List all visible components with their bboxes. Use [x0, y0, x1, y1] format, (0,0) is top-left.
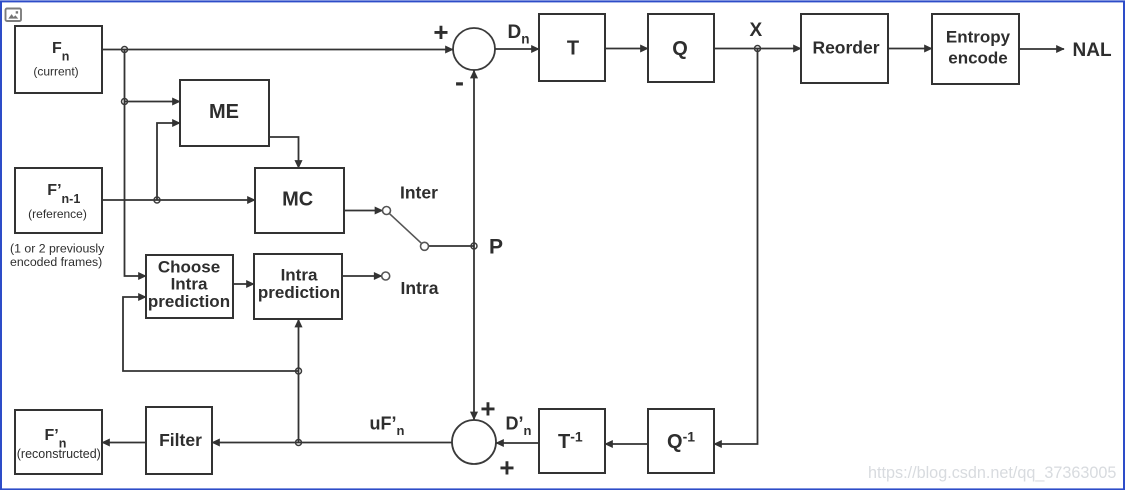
switch pole [421, 242, 429, 250]
wire adder to Filter (uF'n) [212, 442, 452, 444]
svg-text:encode: encode [948, 49, 1008, 68]
svg-text:prediction: prediction [258, 283, 340, 302]
adder top (subtract) [453, 28, 495, 70]
svg-text:(current): (current) [33, 65, 78, 79]
wire branch up to ME second input [157, 123, 180, 200]
wire Filter to F'n [102, 442, 146, 444]
wire adder to T [495, 48, 539, 50]
svg-text:ME: ME [209, 101, 239, 123]
junction node P [471, 243, 477, 249]
wire Q inverse to T inverse [605, 443, 648, 445]
svg-text:Choose: Choose [158, 258, 220, 277]
box Q [648, 14, 714, 82]
junction node X [755, 46, 761, 52]
box F'n (reconstructed) [15, 410, 102, 474]
junction on Fn output [122, 47, 128, 53]
wire Fn to adder [102, 49, 453, 51]
svg-text:(reconstructed): (reconstructed) [17, 447, 101, 461]
box MC [255, 168, 344, 233]
wire reconstruction up into Intra prediction [298, 320, 300, 443]
svg-text:Reorder: Reorder [812, 38, 879, 58]
box Q inverse [648, 409, 714, 473]
svg-text:Intra: Intra [171, 275, 208, 294]
caption 1 or 2 previously encoded frames [10, 242, 105, 270]
box T [539, 14, 605, 81]
wire loop to Choose Intra second input [123, 297, 299, 371]
svg-text:prediction: prediction [148, 292, 230, 311]
svg-text:(1 or 2 previously: (1 or 2 previously [10, 242, 105, 256]
box ME [180, 80, 269, 146]
wire ME to MC top [269, 137, 299, 168]
svg-text:P: P [489, 236, 503, 259]
wire Q to Reorder [714, 48, 801, 50]
svg-text:+: + [433, 17, 448, 47]
svg-text:https://blog.csdn.net/qq_37363: https://blog.csdn.net/qq_37363005 [868, 464, 1116, 482]
image placeholder icon [6, 9, 22, 22]
wire intra prediction output to intra switch contact [342, 275, 382, 277]
wire T to Q [605, 48, 648, 50]
box F'n-1 (reference) [15, 168, 102, 233]
switch contact inter [383, 207, 391, 215]
wire MC to inter switch contact [344, 210, 383, 212]
junction uF'n branch [296, 440, 302, 446]
svg-text:-: - [455, 67, 464, 97]
svg-text:Filter: Filter [159, 430, 202, 450]
wire branch to ME [125, 101, 181, 103]
switch contact intra [382, 272, 390, 280]
switch lever [389, 214, 421, 244]
junction loop branch [296, 368, 302, 374]
svg-text:+: + [499, 453, 514, 483]
adder bottom (reconstruction) [452, 420, 496, 464]
svg-text:Inter: Inter [400, 183, 438, 203]
junction on F'n-1 output [154, 197, 160, 203]
svg-text:MC: MC [282, 189, 313, 211]
wire Choose Intra to Intra prediction [233, 283, 254, 285]
wire switch pole to P node [429, 245, 474, 247]
box Intra prediction [254, 254, 342, 319]
wire P down to reconstruction adder [473, 246, 475, 420]
svg-text:Intra: Intra [281, 266, 318, 285]
wire T inverse to adder (D'n) [496, 442, 539, 444]
box Fn (current) [15, 26, 102, 93]
wire F'n-1 to MC [102, 199, 255, 201]
box Reorder [801, 14, 888, 83]
junction to ME [122, 99, 128, 105]
wire X down to Q inverse [714, 49, 758, 445]
svg-text:T: T [567, 38, 579, 60]
wire branch down to Choose Intra input [125, 50, 147, 277]
svg-text:X: X [750, 20, 763, 41]
box Choose Intra prediction [146, 255, 233, 318]
wire Reorder to Entropy encode [888, 48, 932, 50]
box Entropy encode [932, 14, 1019, 84]
svg-text:Q: Q [672, 38, 688, 60]
wire Entropy encode to NAL [1019, 48, 1064, 50]
svg-text:+: + [480, 394, 495, 424]
box Filter [146, 407, 212, 474]
svg-text:Intra: Intra [401, 278, 439, 298]
box T inverse [539, 409, 605, 473]
svg-text:(reference): (reference) [28, 207, 87, 221]
svg-text:encoded frames): encoded frames) [10, 255, 102, 269]
wire P up to subtractor [473, 71, 475, 247]
svg-text:Entropy: Entropy [946, 28, 1011, 47]
svg-text:NAL: NAL [1073, 40, 1112, 61]
